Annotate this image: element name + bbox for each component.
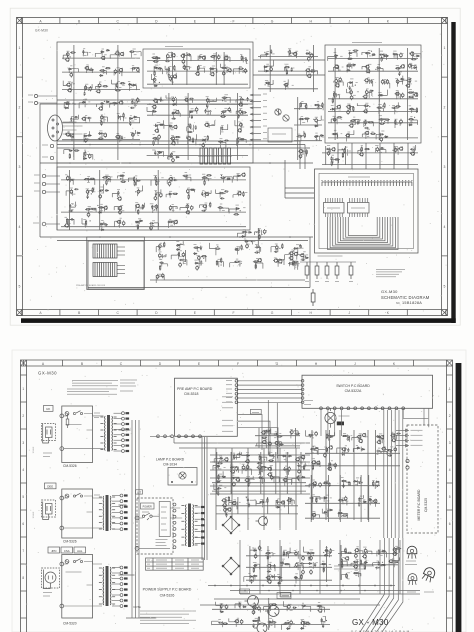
wire bbox=[129, 117, 131, 124]
diode D6 bbox=[193, 253, 197, 255]
wire bbox=[294, 264, 298, 267]
wire bbox=[309, 237, 311, 288]
diode D63 bbox=[346, 69, 350, 71]
wire bbox=[362, 52, 367, 55]
wire bbox=[161, 261, 163, 266]
node junction bbox=[282, 580, 283, 581]
node junction bbox=[70, 193, 71, 194]
wire bbox=[210, 477, 310, 479]
capacitor C228 bbox=[252, 624, 254, 628]
resistor R46 bbox=[222, 97, 228, 98]
wire bbox=[131, 67, 133, 71]
transistor Q92 bbox=[295, 457, 299, 461]
wire bbox=[172, 73, 177, 78]
diode D70 bbox=[384, 136, 388, 138]
wire bbox=[159, 254, 166, 257]
transistor Q23 bbox=[171, 53, 175, 57]
wire bbox=[354, 477, 360, 482]
wire bbox=[270, 566, 275, 572]
transistor Q74 bbox=[364, 131, 368, 135]
wire bbox=[87, 190, 89, 195]
node junction bbox=[242, 231, 243, 232]
node connector board inner outline bbox=[87, 237, 145, 290]
node junction bbox=[377, 486, 378, 487]
wire bbox=[313, 497, 320, 500]
resistor R114 bbox=[378, 95, 384, 96]
diode D96 bbox=[253, 575, 257, 577]
resistor R209 bbox=[277, 436, 283, 437]
wire bbox=[380, 90, 387, 96]
wire bbox=[325, 198, 327, 217]
node junction bbox=[276, 500, 277, 501]
wire bbox=[359, 435, 361, 439]
wire bbox=[312, 513, 314, 520]
wire bbox=[253, 606, 255, 614]
wire bbox=[313, 45, 315, 92]
node junction bbox=[83, 156, 84, 157]
resistor R111 bbox=[395, 68, 401, 69]
wire bbox=[266, 576, 268, 580]
wire bbox=[381, 54, 387, 60]
resistor R101 bbox=[304, 133, 305, 139]
wire bbox=[209, 243, 216, 249]
wire bbox=[346, 65, 348, 73]
wire bbox=[242, 56, 244, 62]
resistor R191 bbox=[316, 497, 317, 503]
resistor R30 bbox=[98, 138, 104, 139]
transistor Q41 bbox=[171, 141, 175, 145]
wire bbox=[357, 103, 364, 106]
capacitor C108 bbox=[169, 205, 172, 210]
wire bbox=[136, 178, 138, 186]
wire bbox=[394, 121, 396, 128]
capacitor C14 bbox=[200, 260, 202, 264]
node junction bbox=[202, 178, 203, 179]
wire bbox=[238, 67, 240, 74]
diode D35 bbox=[153, 111, 157, 113]
resistor R196 bbox=[239, 602, 240, 608]
capacitor C32 bbox=[84, 91, 86, 95]
wire bbox=[246, 454, 248, 460]
node junction bbox=[169, 236, 171, 238]
wire bbox=[158, 245, 160, 251]
wire bbox=[157, 192, 159, 197]
node junction bbox=[296, 477, 297, 478]
wire bbox=[333, 108, 335, 112]
wire bbox=[258, 70, 318, 72]
node DEE label bbox=[45, 483, 57, 489]
wire bbox=[365, 561, 367, 568]
node junction bbox=[270, 466, 271, 467]
node junction bbox=[261, 478, 262, 479]
resistor R92 bbox=[137, 224, 138, 230]
diode D74 bridge bbox=[222, 516, 240, 534]
diode D37 bbox=[189, 111, 193, 113]
wire bbox=[349, 52, 351, 58]
transistor Q65 bbox=[405, 84, 409, 88]
node junction bbox=[205, 139, 206, 140]
wire bbox=[249, 546, 251, 582]
transistor Q104 bbox=[280, 500, 284, 504]
resistor R43 bbox=[221, 67, 227, 68]
resistor R75 bbox=[220, 177, 226, 178]
wire bbox=[199, 68, 205, 72]
resistor R172 bbox=[378, 549, 379, 555]
wire bbox=[326, 549, 328, 557]
capacitor C210 bbox=[329, 462, 331, 466]
wire bbox=[344, 436, 349, 442]
capacitor C181 bbox=[276, 500, 278, 504]
capacitor C70 bbox=[204, 109, 206, 113]
wire bbox=[341, 575, 346, 580]
wire bbox=[345, 146, 347, 165]
wire bbox=[264, 607, 271, 611]
wire bbox=[302, 150, 304, 155]
resistor R63 bbox=[102, 177, 108, 178]
wire bbox=[62, 71, 140, 73]
transistor Q54 bbox=[116, 220, 120, 224]
capacitor C112 bbox=[70, 218, 74, 220]
node junction bbox=[247, 468, 248, 469]
op-amp U1 bbox=[324, 203, 345, 214]
wire bbox=[71, 83, 73, 88]
transistor Q7 bbox=[300, 253, 304, 257]
diode D104 bbox=[376, 436, 380, 438]
wire bbox=[279, 448, 281, 530]
wire bbox=[147, 155, 248, 157]
resistor R181 bbox=[308, 434, 314, 435]
capacitor C2 bbox=[263, 229, 266, 234]
capacitor C175 bbox=[247, 483, 249, 487]
wire bbox=[119, 430, 157, 618]
resistor R138 bbox=[310, 71, 316, 72]
connector J power secondary taps bbox=[195, 506, 205, 545]
wire ribbon nest bbox=[328, 217, 399, 250]
transistor Q50 bbox=[135, 204, 139, 208]
wire bbox=[328, 432, 335, 435]
wire bbox=[187, 98, 189, 105]
node junction bbox=[69, 176, 70, 177]
node junction bbox=[155, 124, 156, 125]
wire bbox=[118, 52, 120, 57]
node junction bbox=[379, 150, 380, 151]
wire bbox=[147, 107, 154, 112]
diode D28 bbox=[69, 150, 73, 152]
capacitor C213 bbox=[329, 482, 331, 486]
wire bbox=[182, 54, 184, 60]
transistor Q21 bbox=[69, 133, 73, 137]
wire bbox=[62, 122, 140, 124]
wire bbox=[329, 198, 331, 217]
wire bbox=[87, 155, 93, 160]
wire bbox=[328, 148, 330, 155]
capacitor C16 bbox=[156, 274, 159, 279]
wire bbox=[285, 479, 292, 485]
wire bbox=[255, 564, 257, 568]
node junction bbox=[157, 154, 158, 155]
node junction bbox=[227, 103, 229, 105]
wire bbox=[174, 438, 310, 444]
diode D18 bbox=[82, 101, 86, 103]
wire bbox=[87, 84, 93, 88]
wire bbox=[328, 98, 418, 100]
wire bbox=[295, 428, 297, 448]
transistor Q96 bbox=[267, 467, 271, 471]
node junction bbox=[391, 562, 392, 563]
wire bbox=[164, 125, 170, 128]
node junction bbox=[371, 51, 372, 52]
capacitor C196 bbox=[364, 548, 367, 553]
capacitor C154 bbox=[410, 148, 414, 150]
wire bbox=[294, 431, 299, 435]
wire bbox=[197, 56, 199, 61]
capacitor C92 bbox=[99, 194, 102, 199]
transistor Q36 bbox=[154, 129, 158, 133]
wire bbox=[157, 177, 159, 185]
wire bbox=[381, 118, 383, 125]
resistor R195 bbox=[221, 603, 222, 609]
resistor R70 bbox=[156, 180, 157, 186]
resistor R84 bbox=[98, 207, 104, 208]
wire bbox=[297, 552, 299, 559]
transistor Q133 bbox=[318, 609, 322, 613]
wire bbox=[328, 435, 330, 441]
wire bbox=[106, 176, 108, 181]
resistor R152 bbox=[268, 460, 274, 461]
wire bbox=[238, 393, 301, 395]
wire bbox=[366, 65, 368, 73]
resistor R81 bbox=[243, 191, 244, 197]
capacitor C90 bbox=[87, 195, 89, 199]
wire bbox=[117, 71, 122, 76]
wire bbox=[212, 482, 306, 484]
resistor R11 bbox=[234, 261, 240, 262]
wire bbox=[346, 549, 348, 553]
wire bbox=[63, 122, 83, 134]
wire bbox=[332, 157, 334, 163]
transistor Q130 bbox=[373, 499, 377, 503]
wire bbox=[317, 104, 319, 110]
wire bbox=[232, 467, 238, 473]
wire bbox=[97, 104, 102, 107]
wire bbox=[390, 410, 392, 538]
wire bbox=[206, 112, 211, 115]
wire bbox=[322, 564, 327, 567]
resistor R112 bbox=[334, 92, 335, 98]
wire bbox=[412, 91, 414, 99]
transistor Q48 bbox=[103, 206, 107, 210]
resistor R169 bbox=[323, 567, 324, 573]
wire bbox=[322, 164, 418, 166]
wire bbox=[327, 198, 329, 217]
wire bbox=[256, 263, 263, 269]
node junction bbox=[379, 552, 380, 553]
capacitor C93 bbox=[117, 191, 119, 195]
wire bbox=[368, 93, 372, 97]
wire bbox=[225, 508, 227, 513]
wire bbox=[64, 414, 104, 449]
wire bbox=[241, 110, 243, 114]
wire bbox=[309, 484, 316, 487]
wire bbox=[396, 92, 398, 99]
capacitor C72 bbox=[239, 109, 242, 114]
wire bbox=[70, 177, 72, 183]
wire bbox=[212, 55, 217, 61]
capacitor C218 bbox=[344, 496, 347, 501]
node junction bbox=[162, 246, 163, 247]
wire bbox=[377, 538, 399, 632]
diode D29 bbox=[83, 158, 87, 160]
wire bbox=[284, 478, 286, 486]
wire bbox=[102, 134, 107, 137]
wire bbox=[201, 437, 203, 560]
node BIAS OSC block bbox=[268, 128, 292, 142]
transistor Q2 bbox=[273, 259, 277, 263]
capacitor C44 bbox=[104, 133, 107, 138]
diode D10 bbox=[305, 257, 309, 259]
node junction bbox=[265, 555, 266, 556]
wire bbox=[381, 119, 388, 124]
wire bbox=[277, 246, 279, 251]
capacitor C59 bbox=[153, 77, 156, 82]
node junction bbox=[318, 106, 319, 107]
wire bbox=[117, 191, 119, 197]
wire bbox=[336, 118, 338, 124]
resistor R42 bbox=[209, 68, 215, 69]
node junction bbox=[300, 577, 301, 578]
node power switch unit outline bbox=[137, 498, 173, 554]
wire bbox=[366, 538, 390, 632]
wire bbox=[175, 98, 177, 106]
capacitor C111 bbox=[202, 210, 206, 212]
diode D57 bbox=[320, 135, 324, 137]
transistor Q99 bbox=[245, 478, 249, 482]
capacitor C13 bbox=[179, 262, 182, 267]
fuse F2 bbox=[65, 494, 69, 498]
wire bbox=[344, 448, 346, 456]
wire bbox=[69, 170, 71, 230]
wire bbox=[355, 573, 361, 576]
transistor Q42 bbox=[186, 136, 190, 140]
diode D114 bbox=[329, 509, 333, 511]
node junction bbox=[339, 499, 340, 500]
diode D90 bbox=[324, 554, 328, 556]
capacitor C169 bbox=[283, 469, 287, 471]
resistor R183 bbox=[342, 435, 348, 436]
diode D4 bbox=[176, 245, 180, 247]
wire bbox=[387, 410, 389, 538]
wire bbox=[40, 236, 313, 238]
node junction bbox=[67, 101, 68, 102]
transistor Q113 bbox=[344, 556, 348, 560]
resistor R137 bbox=[286, 69, 287, 75]
wire bbox=[68, 220, 74, 225]
wire bbox=[117, 176, 123, 179]
wire bbox=[122, 174, 124, 181]
wire bbox=[317, 498, 324, 503]
wire bbox=[294, 124, 322, 126]
wire bbox=[352, 437, 359, 440]
wire bbox=[219, 206, 221, 211]
diode D31 bbox=[154, 67, 158, 69]
wire bbox=[306, 69, 308, 75]
wire bbox=[332, 159, 339, 163]
wire bbox=[273, 454, 275, 459]
resistor R113 bbox=[332, 98, 333, 104]
wire bbox=[87, 69, 92, 73]
wire bbox=[352, 119, 359, 123]
connector J LINE jack bbox=[42, 182, 45, 185]
wire bbox=[97, 84, 99, 89]
wire bbox=[384, 83, 390, 88]
node junction bbox=[284, 467, 285, 468]
node junction bbox=[347, 575, 348, 576]
connector J PHONES jack bbox=[42, 222, 46, 226]
diode D54 bbox=[139, 220, 143, 222]
wire bbox=[360, 564, 366, 569]
transistor Q78 bbox=[283, 83, 287, 87]
wire bbox=[375, 482, 379, 485]
wire bbox=[394, 410, 396, 538]
wire bbox=[399, 76, 403, 82]
wire bbox=[285, 79, 289, 85]
wire bbox=[264, 468, 270, 472]
diode D14 bbox=[99, 75, 103, 77]
transistor Q134 bbox=[234, 619, 238, 623]
node junction bbox=[371, 502, 372, 503]
node junction bbox=[136, 207, 137, 208]
transistor Q110 bbox=[354, 548, 358, 552]
resistor R31 bbox=[74, 150, 80, 151]
wire bbox=[101, 223, 103, 229]
resistor R177 bbox=[364, 564, 365, 570]
transistor Q137 bbox=[262, 440, 266, 444]
wire bbox=[196, 246, 198, 251]
wire bbox=[338, 150, 345, 154]
wire bbox=[88, 179, 95, 185]
wire bbox=[297, 563, 299, 570]
node junction bbox=[272, 566, 273, 567]
resistor R144 bbox=[334, 159, 340, 160]
transistor Q52 bbox=[202, 204, 206, 208]
wire bbox=[204, 190, 211, 193]
wire bbox=[248, 241, 253, 244]
wire bbox=[377, 69, 383, 72]
wire bbox=[208, 99, 210, 103]
wire bbox=[234, 176, 240, 179]
wire bbox=[225, 499, 227, 503]
capacitor C50 bbox=[187, 53, 191, 55]
wire bbox=[285, 68, 289, 71]
wire bbox=[373, 563, 378, 566]
transistor Q81 bbox=[398, 147, 402, 151]
wire bbox=[318, 106, 323, 110]
wire bbox=[220, 127, 222, 135]
switch S4 bbox=[142, 513, 152, 520]
node junction bbox=[284, 553, 285, 554]
wire bbox=[210, 454, 310, 456]
wire bbox=[409, 92, 416, 96]
diode D26 bbox=[98, 133, 102, 135]
capacitor C126 bbox=[349, 86, 351, 90]
node junction bbox=[99, 191, 100, 192]
node junction bbox=[223, 605, 224, 606]
node junction bbox=[367, 552, 368, 553]
wire bbox=[238, 415, 262, 451]
transistor Q69 bbox=[336, 105, 340, 109]
wire bbox=[210, 469, 310, 471]
wire bbox=[84, 118, 90, 122]
